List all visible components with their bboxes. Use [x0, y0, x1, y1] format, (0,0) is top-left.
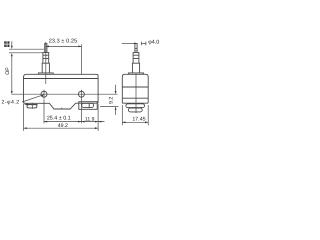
dim 23.3 right extension: [80, 44, 82, 74]
dim 9.2 line lower: [115, 109, 117, 115]
arrow OP up: [11, 53, 13, 56]
arrow 11.9 left: [81, 121, 84, 123]
terminal screw left: [25, 103, 38, 105]
mounting hole right: [78, 91, 84, 97]
switch body side view: [122, 74, 148, 103]
svg-text:11.9: 11.9: [85, 116, 95, 122]
ext 25.4 right: [80, 99, 82, 124]
side terminal capsule top: [126, 104, 145, 108]
plunger base: [42, 63, 49, 73]
OP dimension line: [11, 55, 13, 92]
ext 49.2 right: [97, 104, 99, 131]
arrow 11.9 tail: [98, 121, 101, 123]
barrel inner lines: [43, 55, 49, 58]
plunger barrel: [43, 53, 49, 64]
arrow 9.2 down: [115, 91, 117, 94]
dim 9.2 line upper: [115, 85, 117, 92]
arrow OP down: [11, 91, 13, 94]
terminal washer tip: [25, 103, 28, 105]
ext 25.4 left: [43, 99, 45, 123]
svg-text:23.3 ± 0.25: 23.3 ± 0.25: [49, 38, 78, 44]
terminal block middle: [79, 102, 97, 110]
dim 49.2 line: [24, 127, 99, 129]
side plunger base: [132, 63, 139, 73]
side seam lines: [122, 87, 148, 98]
svg-text:9.2: 9.2: [109, 97, 115, 104]
svg-text:φ4.0: φ4.0: [148, 39, 159, 45]
PT dimension line: [11, 41, 13, 47]
arrow 49.2 left: [24, 127, 27, 129]
arrow 17.45 right: [145, 121, 148, 123]
mounting hole left: [41, 91, 47, 97]
svg-text:17.45: 17.45: [132, 117, 145, 123]
plunger centerline: [45, 42, 47, 84]
dim 17.45 line: [122, 121, 148, 123]
ext 9.2 lower: [100, 106, 118, 108]
arrow phi4 right: [134, 43, 137, 45]
arrow 9.2 up: [115, 107, 117, 110]
free position line A: [9, 48, 44, 50]
dim 23.3 line: [46, 45, 82, 47]
svg-text:OP: OP: [5, 67, 11, 75]
arrow 49.2 right: [95, 127, 98, 129]
svg-text:49.2: 49.2: [58, 123, 68, 129]
side plunger barrel: [133, 53, 139, 64]
operating position line B: [9, 52, 43, 54]
dim phi4 leader: [122, 42, 135, 44]
ext 17.45 right: [147, 105, 149, 125]
dim 11.9 line: [81, 121, 104, 123]
leader 2-phi4.2: [22, 96, 41, 102]
arrow 11.9 right: [95, 121, 98, 123]
ext 49.2 left: [23, 104, 25, 131]
side terminal capsule bottom: [128, 108, 142, 112]
arrow 25.4 right: [78, 121, 81, 123]
arrow 25.4 left: [44, 121, 47, 123]
label PT value: [4, 41, 9, 47]
dim 25.4 line: [44, 121, 81, 123]
side centerline: [135, 74, 137, 113]
hole centerline: [12, 93, 118, 95]
arrow 23.3 right: [78, 46, 81, 48]
side boss flange: [128, 73, 143, 74]
arrow leader hole: [41, 94, 44, 97]
svg-text:25.4 ± 0.1: 25.4 ± 0.1: [47, 116, 71, 122]
switch body front view: [24, 74, 99, 109]
ext 17.45 left: [121, 105, 123, 125]
side plunger pin: [135, 43, 137, 52]
plunger boss flange: [38, 73, 53, 74]
body top inner line: [24, 78, 99, 80]
plunger pin: [45, 44, 47, 53]
arrow 17.45 left: [122, 121, 125, 123]
arrow 23.3 left: [46, 46, 49, 48]
arrow PT down: [11, 46, 13, 49]
svg-text:2-φ4.2: 2-φ4.2: [2, 99, 20, 105]
bottom tick: [61, 108, 63, 109]
